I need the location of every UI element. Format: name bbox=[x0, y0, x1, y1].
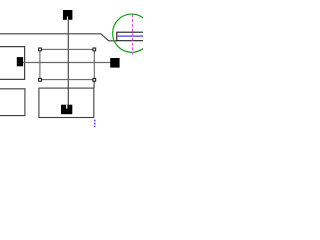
handle SE (selection handle) bbox=[93, 78, 96, 81]
component outline A (bottom-left, clipped at left edge) bbox=[0, 89, 25, 116]
wire segment from SE handle down to outline B corner bbox=[93, 81, 95, 88]
wire W2 (C-shaped net on left: top run, drop, bottom run) bbox=[0, 47, 25, 80]
notch in pad P4 bbox=[66, 105, 67, 109]
wire V1 (vertical net from pad P1 down to pad P4) bbox=[67, 20, 69, 105]
selection box (gray rectangle) bbox=[40, 49, 94, 79]
component U1 body (in magnifier, clipped at right edge) bbox=[117, 32, 145, 41]
wire W1 (long horizontal net to component in magnifier) bbox=[0, 34, 117, 41]
page boundary (blue dashed, bottom) bbox=[94, 120, 96, 128]
magnifier circle (green) bbox=[113, 14, 151, 52]
pad P2 (left, filled) bbox=[17, 57, 23, 66]
pad P3 (right, filled) bbox=[110, 58, 119, 68]
notch in pad P1 bbox=[67, 16, 68, 19]
value stripe of U1 (blue) bbox=[118, 35, 144, 37]
handle NE (selection handle) bbox=[93, 48, 96, 51]
handle SW (selection handle) bbox=[39, 78, 42, 81]
handle NW (selection handle) bbox=[39, 48, 42, 51]
crosshair line (magenta, dashed) bbox=[132, 15, 134, 55]
wire W4 (horizontal net from pad P2 to pad P3) bbox=[23, 62, 111, 64]
background bbox=[0, 0, 143, 127]
pad P1 (top, filled) bbox=[63, 10, 72, 20]
pad P4 (bottom, filled, inside outline B) bbox=[61, 105, 72, 115]
component outline B (bottom-centre) bbox=[39, 88, 94, 117]
